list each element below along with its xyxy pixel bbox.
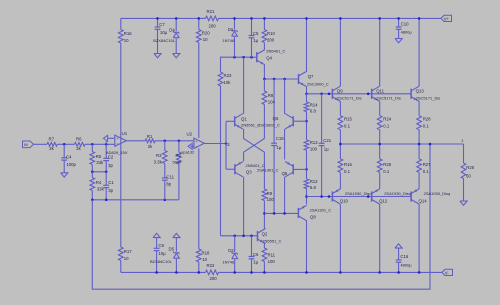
- node C4 junction: [63, 143, 66, 146]
- svg-text:C7: C7: [159, 22, 165, 27]
- svg-text:2SC5171_Dis: 2SC5171_Dis: [416, 95, 441, 100]
- svg-text:R20: R20: [202, 31, 210, 36]
- diode D2 zener: [222, 236, 237, 274]
- wire VAS bias rail lower: [221, 235, 258, 238]
- capacitor C7: [155, 17, 168, 53]
- wire NPN output base rail: [307, 93, 412, 96]
- svg-text:R27: R27: [423, 162, 431, 167]
- transistor Q3 2N5401: [235, 162, 265, 177]
- ground below C10: [395, 39, 402, 43]
- svg-text:2SA1930_Disq: 2SA1930_Disq: [424, 191, 451, 196]
- wire Q7 emitter to output base rail: [305, 86, 308, 95]
- svg-text:8p: 8p: [166, 181, 171, 186]
- svg-text:R25: R25: [383, 162, 391, 167]
- node R2 top: [178, 140, 181, 143]
- svg-text:33k: 33k: [96, 160, 104, 165]
- svg-text:10: 10: [124, 38, 129, 43]
- svg-text:2SC5171_Dis: 2SC5171_Dis: [376, 95, 401, 100]
- resistor R6: [75, 136, 86, 151]
- flag V-: [442, 269, 453, 275]
- wire Q7 collector to V+ rail: [305, 17, 308, 72]
- svg-text:2SA1301_C: 2SA1301_C: [310, 207, 332, 212]
- svg-text:AD829_15V: AD829_15V: [106, 150, 128, 155]
- resistor R25: [377, 144, 391, 189]
- capacitor C2: [103, 144, 114, 172]
- svg-text:Q10: Q10: [340, 199, 349, 204]
- svg-text:D4: D4: [169, 27, 175, 32]
- svg-text:10µ: 10µ: [158, 251, 166, 256]
- node feedback divider top: [91, 143, 107, 146]
- svg-text:Q13: Q13: [416, 89, 425, 94]
- resistor R20: [196, 17, 210, 138]
- svg-text:R10: R10: [267, 31, 275, 36]
- svg-text:0.1: 0.1: [383, 169, 390, 174]
- node 2 label: [227, 142, 230, 147]
- flag IN port: [23, 141, 34, 148]
- svg-text:2N5401_C: 2N5401_C: [266, 49, 285, 54]
- wire top supply rail V+: [121, 17, 441, 19]
- svg-text:100: 100: [267, 197, 275, 202]
- svg-text:R13: R13: [310, 140, 318, 145]
- svg-text:C2: C2: [108, 154, 114, 159]
- svg-text:0.1: 0.1: [344, 169, 351, 174]
- svg-text:50: 50: [466, 173, 471, 178]
- svg-text:V-: V-: [445, 270, 450, 275]
- svg-text:10: 10: [124, 256, 129, 261]
- svg-text:R7: R7: [49, 136, 55, 141]
- svg-text:Q6: Q6: [273, 116, 279, 121]
- svg-text:+: +: [195, 140, 197, 144]
- svg-text:100: 100: [268, 259, 276, 264]
- capacitor C21: [319, 94, 332, 197]
- wire mid divider: [91, 171, 107, 174]
- capacitor C4: [61, 144, 76, 173]
- transistor Q7 2SC3900: [299, 71, 329, 86]
- op-amp U1 input buffer triangle: [103, 135, 114, 144]
- svg-text:BZX84C10L: BZX84C10L: [150, 259, 173, 264]
- diode D5 zener: [150, 238, 180, 274]
- op-amp U2 input buffer triangle: [188, 143, 194, 149]
- resistor R17: [119, 247, 133, 261]
- wire Q12 collector to V- rail: [378, 204, 381, 274]
- svg-text:3.3k: 3.3k: [154, 159, 163, 164]
- svg-text:4800µ: 4800µ: [401, 30, 413, 35]
- svg-text:C1: C1: [108, 180, 114, 185]
- resistor R15: [338, 101, 352, 144]
- resistor R9: [262, 189, 274, 213]
- svg-text:D1: D1: [228, 27, 234, 32]
- svg-text:200: 200: [267, 38, 275, 43]
- resistor R1: [145, 134, 155, 149]
- wire Q3 collector to lower bias rail: [243, 177, 245, 236]
- resistor R5: [90, 144, 104, 172]
- wire lower emitter rail: [264, 212, 298, 215]
- svg-text:C5: C5: [253, 31, 259, 36]
- diode D4 zener: [153, 17, 179, 53]
- transistor Q10 2SA1930: [332, 189, 371, 204]
- svg-text:R14: R14: [310, 102, 318, 107]
- svg-text:U2: U2: [187, 132, 193, 137]
- ground below D4: [173, 54, 180, 58]
- svg-text:IN: IN: [24, 143, 28, 147]
- transistor Q8 2SA1301: [298, 205, 331, 220]
- svg-text:R17: R17: [124, 249, 132, 254]
- resistor R22: [206, 263, 219, 281]
- wire Q9 collector to V+ rail: [339, 17, 342, 86]
- wire Q6 collector to rail: [284, 79, 286, 114]
- svg-text:Q1: Q1: [241, 116, 247, 121]
- svg-text:0.1: 0.1: [423, 169, 430, 174]
- transistor Q12 2SA1930: [372, 189, 411, 204]
- svg-text:−: −: [117, 142, 119, 146]
- svg-text:C11: C11: [166, 174, 174, 179]
- svg-text:C4: C4: [66, 154, 72, 159]
- transistor Q6 2SC3902: [258, 114, 293, 129]
- svg-text:R24: R24: [383, 117, 391, 122]
- svg-text:Q12: Q12: [379, 199, 388, 204]
- wire Q14 collector to V- rail: [418, 204, 421, 274]
- svg-text:0.1: 0.1: [344, 124, 351, 129]
- svg-text:200: 200: [210, 276, 218, 281]
- svg-text:R22: R22: [207, 263, 215, 268]
- transistor Q1 2N5551: [235, 114, 261, 129]
- capacitor C1: [103, 172, 114, 200]
- svg-text:6.8: 6.8: [310, 185, 317, 190]
- resistor R28: [417, 101, 431, 144]
- wire Q11 collector to V+ rail: [378, 17, 381, 86]
- svg-text:2SA1930_Disq: 2SA1930_Disq: [384, 191, 411, 196]
- node R3 top: [164, 140, 167, 143]
- svg-text:1µ: 1µ: [276, 145, 281, 150]
- resistor R8: [262, 79, 275, 139]
- svg-text:Q2: Q2: [262, 231, 268, 236]
- svg-text:V+: V+: [444, 16, 450, 21]
- svg-text:4800µ: 4800µ: [400, 263, 412, 268]
- svg-text:2SC5171_Dis: 2SC5171_Dis: [337, 95, 362, 100]
- svg-text:500k: 500k: [173, 160, 182, 165]
- resistor R23: [218, 72, 232, 236]
- ground above D5: [173, 233, 180, 237]
- svg-text:1µ: 1µ: [253, 38, 258, 43]
- svg-text:−: −: [196, 145, 198, 149]
- svg-text:2SC3902_C: 2SC3902_C: [258, 123, 280, 128]
- svg-text:1N746: 1N746: [222, 259, 235, 264]
- transistor Q5 2SA1301: [257, 162, 293, 177]
- svg-text:opa132: opa132: [181, 150, 195, 155]
- svg-text:Q3: Q3: [246, 169, 252, 174]
- ground below C4: [61, 173, 68, 177]
- resistor R10: [262, 17, 275, 50]
- wire Q13 collector to V+ rail: [418, 17, 421, 86]
- svg-text:200: 200: [209, 24, 217, 29]
- capacitor C6: [249, 236, 259, 274]
- svg-text:2SA1301_C: 2SA1301_C: [257, 167, 279, 172]
- wire U2 output: [204, 142, 227, 145]
- svg-text:R1: R1: [147, 134, 153, 139]
- svg-text:1µ: 1µ: [253, 259, 258, 264]
- wire left supply column: [120, 18, 122, 272]
- wire U1 output: [126, 140, 194, 142]
- svg-text:R12: R12: [310, 179, 318, 184]
- wire Q8 collector to V- rail: [305, 220, 308, 273]
- svg-text:Q5: Q5: [282, 171, 288, 176]
- svg-text:R9: R9: [267, 191, 273, 196]
- capacitor C9: [153, 233, 166, 273]
- wire output rail: [339, 143, 463, 146]
- op-amp U1: [106, 131, 128, 155]
- transistor Q9 2SC5171: [332, 86, 361, 101]
- svg-text:2SA1930_Disq: 2SA1930_Disq: [345, 191, 372, 196]
- svg-text:Q7: Q7: [308, 74, 314, 79]
- wire input row: [34, 143, 115, 145]
- node Q5 base tap: [293, 168, 308, 171]
- svg-text:10: 10: [203, 37, 208, 42]
- svg-text:R8: R8: [268, 93, 274, 98]
- svg-text:R16: R16: [124, 31, 132, 36]
- wire Q6 emitter to Q5 emitter: [284, 129, 286, 160]
- svg-text:C21: C21: [323, 138, 331, 143]
- svg-text:Q14: Q14: [419, 199, 428, 204]
- wire PNP output base rail: [307, 195, 412, 198]
- wire driver base column: [226, 121, 235, 169]
- svg-text:10: 10: [202, 257, 207, 262]
- wire Q5 collector: [284, 177, 286, 214]
- svg-text:100: 100: [310, 146, 318, 151]
- svg-text:2SC3900_C: 2SC3900_C: [307, 81, 329, 86]
- flag V+: [441, 15, 452, 21]
- wire Q2 collector: [263, 212, 266, 229]
- resistor R24: [377, 101, 391, 144]
- resistor R2: [173, 141, 182, 200]
- resistor R7: [47, 136, 57, 151]
- svg-text:R5: R5: [96, 154, 102, 159]
- wire Q10 collector to V- rail: [339, 204, 342, 274]
- resistor R11: [262, 244, 276, 274]
- resistor R18: [196, 148, 210, 273]
- wire VAS bias rail upper: [221, 56, 257, 72]
- resistor R21: [206, 9, 219, 28]
- resistor R13: [304, 121, 318, 169]
- resistor R4: [90, 172, 105, 200]
- svg-text:Q11: Q11: [376, 89, 384, 94]
- resistor R16: [338, 144, 352, 189]
- resistor R3: [154, 141, 168, 178]
- svg-text:C19: C19: [276, 136, 284, 141]
- ground below R26: [460, 201, 467, 205]
- op-amp U2: [181, 132, 204, 155]
- svg-text:C9: C9: [158, 243, 164, 248]
- resistor R14: [304, 94, 318, 121]
- svg-text:BZX84C15L: BZX84C15L: [153, 38, 176, 43]
- transistor Q4 2N5401: [257, 49, 286, 65]
- capacitor C19: [271, 79, 284, 213]
- wire Q1 collector to bias rail: [243, 57, 245, 114]
- svg-text:3p: 3p: [108, 188, 113, 193]
- diode D1 zener: [222, 17, 237, 57]
- resistor R27: [417, 144, 431, 189]
- svg-text:+: +: [116, 137, 118, 141]
- svg-text:R11: R11: [268, 253, 276, 258]
- svg-text:R15: R15: [344, 117, 352, 122]
- svg-text:D2: D2: [228, 248, 234, 253]
- transistor Q2 2N5551: [258, 229, 282, 244]
- capacitor C16: [395, 244, 412, 274]
- svg-text:U1: U1: [122, 131, 128, 136]
- svg-text:10µ: 10µ: [160, 30, 168, 35]
- wire feedback node row: [91, 199, 179, 202]
- svg-text:Q4: Q4: [266, 56, 272, 61]
- svg-text:R4: R4: [96, 180, 102, 185]
- svg-text:R21: R21: [207, 9, 215, 14]
- wire R8 cross-couple to Q3: [244, 139, 265, 162]
- svg-text:R23: R23: [224, 73, 232, 78]
- svg-text:R28: R28: [423, 117, 431, 122]
- resistor R16: [119, 30, 133, 44]
- svg-text:R16: R16: [344, 162, 352, 167]
- svg-text:R26: R26: [466, 165, 474, 170]
- svg-text:Q8: Q8: [310, 215, 316, 220]
- svg-text:1N746: 1N746: [222, 38, 235, 43]
- svg-text:D5: D5: [169, 247, 175, 252]
- wire Q8 emitter to PNP base rail: [305, 195, 308, 204]
- ground below C7: [154, 54, 161, 58]
- wire global feedback loop: [92, 144, 430, 289]
- transistor Q14 2SA1930: [411, 189, 450, 204]
- svg-text:R3: R3: [156, 153, 162, 158]
- svg-text:C10: C10: [401, 22, 409, 27]
- svg-text:2N5551_C: 2N5551_C: [262, 239, 281, 244]
- svg-text:R18: R18: [202, 251, 210, 256]
- svg-text:10k: 10k: [224, 80, 232, 85]
- wire Q1 emitter cross-couple: [244, 129, 265, 189]
- svg-text:3p: 3p: [108, 163, 113, 168]
- wire bottom supply rail V-: [121, 271, 442, 273]
- svg-text:1µ: 1µ: [324, 147, 329, 152]
- svg-text:R6: R6: [76, 136, 82, 141]
- resistor R12: [304, 169, 318, 196]
- capacitor C10: [396, 17, 413, 38]
- svg-text:Q9: Q9: [337, 89, 343, 94]
- node Q6 base tap: [293, 120, 308, 123]
- transistor Q11 2SC5171: [372, 86, 401, 101]
- resistor R26 load: [461, 144, 475, 201]
- capacitor C11: [162, 174, 175, 199]
- svg-text:C16: C16: [400, 254, 408, 259]
- svg-text:0.1: 0.1: [383, 124, 390, 129]
- capacitor C5: [249, 17, 259, 57]
- svg-text:C6: C6: [253, 252, 259, 257]
- wire Q4 emitter to rail: [263, 65, 298, 80]
- node 1 label: [461, 138, 464, 143]
- svg-text:100p: 100p: [66, 162, 76, 167]
- svg-text:0.1: 0.1: [423, 124, 430, 129]
- transistor Q13 2SC5171: [411, 86, 440, 101]
- svg-text:6.8: 6.8: [310, 108, 317, 113]
